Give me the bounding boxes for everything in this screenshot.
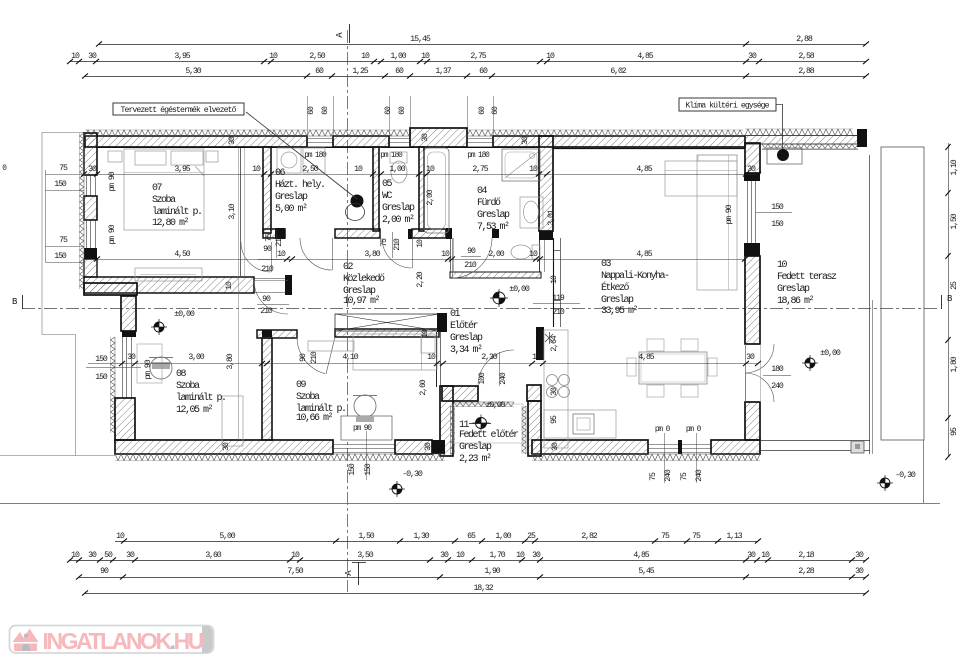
wardrobe 08	[222, 396, 243, 446]
bed room07	[108, 151, 122, 162]
svg-text:Szoba: Szoba	[152, 194, 176, 206]
top wall window head dims 60	[307, 96, 309, 136]
svg-text:30: 30	[228, 136, 237, 145]
attic ladder X-box	[335, 314, 439, 331]
svg-text:240: 240	[499, 372, 508, 385]
svg-text:Közlekedő: Közlekedő	[343, 273, 385, 285]
svg-text:pm 90: pm 90	[144, 359, 153, 379]
svg-text:60: 60	[491, 106, 500, 115]
svg-text:2,30: 2,30	[481, 353, 497, 362]
appliance 06 sink	[303, 148, 325, 173]
dim chain bottom row2	[70, 560, 866, 562]
wall 06 bottom h2a	[263, 229, 285, 238]
svg-text:Greslap: Greslap	[275, 191, 308, 203]
bed 09	[353, 334, 437, 370]
svg-text:Szoba: Szoba	[296, 391, 320, 403]
svg-text:30: 30	[126, 551, 135, 560]
svg-text:04: 04	[477, 186, 488, 197]
svg-text:90: 90	[467, 247, 476, 256]
svg-text:150: 150	[771, 203, 784, 212]
svg-text:10: 10	[550, 275, 559, 284]
dining table	[639, 352, 707, 384]
svg-text:4,10: 4,10	[342, 353, 358, 362]
wall 09 top h4b	[335, 329, 439, 337]
svg-text:4,85: 4,85	[637, 52, 653, 61]
svg-text:3,34 m²: 3,34 m²	[450, 345, 482, 356]
svg-text:Fedett előtér: Fedett előtér	[459, 429, 519, 441]
svg-text:6,02: 6,02	[610, 67, 626, 76]
svg-text:210: 210	[260, 307, 273, 316]
svg-text:50: 50	[104, 551, 113, 560]
axis A vertical dash-dot	[347, 30, 349, 592]
svg-text:10,66 m²: 10,66 m²	[296, 413, 333, 424]
svg-text:pm 90: pm 90	[108, 224, 117, 244]
svg-text:2,64: 2,64	[550, 335, 559, 351]
svg-text:Szoba: Szoba	[176, 380, 200, 392]
svg-text:1,00: 1,00	[390, 52, 406, 61]
wall 04|03	[539, 136, 553, 231]
wall bottom seg4	[711, 440, 760, 454]
dims under pm0 #2	[696, 433, 698, 483]
svg-text:2,18: 2,18	[798, 551, 814, 560]
svg-text:2,75: 2,75	[472, 165, 488, 174]
svg-text:2,00 m²: 2,00 m²	[382, 215, 414, 226]
svg-text:5,30: 5,30	[185, 67, 201, 76]
svg-text:Fürdő: Fürdő	[477, 197, 501, 209]
dresser room07	[135, 268, 202, 281]
svg-text:30: 30	[532, 551, 541, 560]
svg-text:1,37: 1,37	[435, 67, 451, 76]
window bottom pm0 #1	[648, 444, 678, 446]
svg-text:pm 180: pm 180	[467, 152, 490, 160]
svg-text:150: 150	[771, 220, 784, 229]
wall porch west	[440, 386, 453, 456]
label box Tervezett egestermek elvezeto	[113, 103, 244, 115]
svg-text:18,32: 18,32	[473, 584, 493, 593]
svg-text:3,60: 3,60	[205, 551, 221, 560]
wall living east block	[744, 243, 760, 256]
svg-text:60: 60	[384, 106, 393, 115]
svg-text:210: 210	[310, 351, 319, 364]
svg-text:-0,30: -0,30	[895, 470, 916, 480]
svg-text:90: 90	[299, 353, 308, 362]
svg-text:150: 150	[95, 355, 108, 364]
door 05 arc	[382, 238, 412, 268]
svg-text:75: 75	[59, 164, 68, 173]
svg-text:10: 10	[421, 329, 430, 338]
klima unit dot	[777, 149, 789, 161]
svg-text:B: B	[947, 294, 953, 304]
wall left jog corner	[84, 283, 137, 295]
svg-text:2,50: 2,50	[309, 52, 325, 61]
door 02|03 opening	[553, 250, 560, 252]
svg-text:65: 65	[467, 532, 476, 541]
svg-text:30: 30	[521, 136, 530, 145]
svg-text:10: 10	[421, 52, 430, 61]
wall top exterior seg2	[333, 136, 389, 147]
svg-text:1,50: 1,50	[358, 532, 374, 541]
appliance 06 washer	[277, 148, 301, 173]
dim chain interior row2	[97, 259, 745, 261]
terrace roof band upper	[745, 136, 858, 145]
svg-text:30: 30	[88, 52, 97, 61]
svg-text:1,25: 1,25	[352, 67, 368, 76]
svg-text:Greslap: Greslap	[601, 294, 634, 306]
door 07 arc	[241, 242, 271, 272]
svg-text:30: 30	[855, 567, 864, 576]
wall bottom seg3	[532, 440, 648, 454]
wall top exterior pillar	[410, 128, 467, 147]
svg-text:10,97 m²: 10,97 m²	[343, 296, 380, 307]
svg-text:06: 06	[275, 168, 286, 179]
svg-text:10: 10	[441, 250, 450, 259]
svg-text:210: 210	[552, 308, 565, 317]
svg-text:30: 30	[748, 52, 757, 61]
svg-text:4,85: 4,85	[636, 250, 652, 259]
svg-text:3,95: 3,95	[174, 165, 190, 174]
door 01 entry arc	[478, 350, 514, 386]
svg-text:08: 08	[176, 369, 187, 380]
door living double arc2	[745, 373, 774, 402]
svg-text:150: 150	[95, 373, 108, 382]
svg-text:10: 10	[456, 551, 465, 560]
svg-text:laminált p.: laminált p.	[176, 392, 226, 404]
svg-text:25: 25	[950, 281, 959, 290]
svg-text:10: 10	[416, 239, 425, 248]
svg-text:Greslap: Greslap	[382, 202, 415, 214]
svg-text:75: 75	[380, 238, 389, 247]
svg-text:75: 75	[680, 472, 689, 481]
svg-text:2,88: 2,88	[798, 67, 814, 76]
terrace corner marker	[851, 441, 864, 453]
kitchen counter west	[544, 330, 568, 448]
svg-text:10: 10	[354, 165, 363, 174]
svg-text:4,85: 4,85	[638, 353, 654, 362]
desk 08 area	[137, 344, 162, 383]
svg-text:Greslap: Greslap	[777, 283, 810, 295]
terrace roof zigzag top	[745, 129, 853, 136]
svg-text:pm 0: pm 0	[655, 426, 671, 434]
dim chain bottom row4 18.32	[85, 593, 866, 595]
svg-text:1,13: 1,13	[726, 532, 742, 541]
wc 05 toilet	[391, 161, 407, 183]
svg-text:100: 100	[478, 372, 487, 385]
svg-text:12,05 m²: 12,05 m²	[176, 405, 213, 416]
svg-text:5,45: 5,45	[638, 567, 654, 576]
wall bath door jamb	[492, 229, 499, 238]
wall 06|05	[373, 147, 379, 231]
svg-text:2,28: 2,28	[798, 567, 814, 576]
svg-text:60: 60	[395, 67, 404, 76]
terrace east edge	[869, 155, 871, 454]
svg-text:90: 90	[263, 245, 272, 254]
wall porch north	[442, 386, 478, 401]
window left pm90 #1	[86, 175, 88, 196]
svg-text:10: 10	[291, 551, 300, 560]
svg-text:4,85: 4,85	[636, 165, 652, 174]
svg-text:210: 210	[393, 238, 402, 251]
dim chain bottom row1	[115, 541, 758, 543]
porch inner zigzag	[454, 402, 514, 407]
wall left pillar	[84, 196, 97, 220]
svg-text:2,50: 2,50	[302, 165, 318, 174]
svg-text:Greslap: Greslap	[450, 332, 483, 344]
svg-text:1,70: 1,70	[489, 551, 505, 560]
svg-text:2,82: 2,82	[581, 532, 597, 541]
svg-text:03: 03	[601, 259, 612, 270]
svg-text:10: 10	[516, 551, 525, 560]
wall 08|09 top h4a	[257, 330, 297, 338]
window bottom pm0 #2	[682, 444, 711, 446]
insulation zigzag top	[85, 130, 409, 136]
svg-text:2,58: 2,58	[798, 52, 814, 61]
svg-text:1,10: 1,10	[950, 159, 959, 175]
window top pm180 #1	[307, 138, 333, 140]
svg-text:±0,00: ±0,00	[174, 309, 195, 319]
stove 09	[354, 395, 376, 417]
svg-text:±0,00: ±0,00	[820, 348, 841, 358]
window top pm180 #3	[467, 138, 493, 140]
svg-text:60: 60	[307, 106, 316, 115]
svg-text:7,50: 7,50	[287, 567, 303, 576]
svg-text:30: 30	[746, 353, 755, 362]
svg-text:30: 30	[855, 551, 864, 560]
dims under pm0 #1	[664, 433, 666, 483]
wall bottom seg1	[115, 440, 333, 454]
svg-text:01: 01	[450, 309, 461, 320]
svg-text:30: 30	[88, 551, 97, 560]
wall top exterior seg4	[493, 136, 745, 147]
svg-text:10: 10	[546, 52, 555, 61]
wardrobe room07 east	[240, 148, 242, 276]
dim chain interior row3	[88, 363, 758, 365]
svg-text:2,00: 2,00	[488, 250, 504, 259]
right garden strip	[881, 147, 924, 440]
door living double arc1	[745, 344, 774, 373]
wall living east seg1	[745, 143, 760, 173]
svg-text:30: 30	[88, 165, 97, 174]
svg-text:150: 150	[54, 180, 67, 189]
svg-text:07: 07	[152, 183, 163, 194]
svg-text:4,85: 4,85	[633, 551, 649, 560]
terrace bottom edge	[760, 440, 870, 442]
svg-text:18,86 m²: 18,86 m²	[777, 296, 814, 307]
svg-text:3,95: 3,95	[174, 52, 190, 61]
svg-text:10: 10	[252, 165, 261, 174]
svg-text:±0,00: ±0,00	[486, 401, 506, 410]
dim chain interior row1	[84, 174, 758, 176]
wall kitchen pier	[536, 327, 544, 360]
terrace roof block	[857, 129, 867, 147]
svg-text:150: 150	[348, 463, 357, 476]
svg-text:Klíma kültéri egysége: Klíma kültéri egysége	[685, 101, 769, 111]
stove 08	[150, 357, 172, 379]
svg-text:3,00: 3,00	[188, 353, 204, 362]
bed 09 shelf	[308, 341, 354, 351]
svg-text:7,53 m²: 7,53 m²	[477, 222, 509, 233]
wall 02|03 jamb	[553, 238, 555, 327]
svg-text:60: 60	[315, 67, 324, 76]
bath nook side	[450, 238, 452, 272]
svg-text:3,10: 3,10	[228, 203, 237, 219]
wall bottom seg2	[395, 440, 432, 454]
dim chain right margin	[948, 143, 950, 457]
terrace ceiling line	[762, 149, 858, 151]
svg-text:3,80: 3,80	[364, 250, 380, 259]
svg-text:Tervezett égéstermék elvezető: Tervezett égéstermék elvezető	[121, 105, 237, 115]
svg-text:10: 10	[269, 52, 278, 61]
axis B horizontal dash-dot	[22, 308, 940, 310]
bath sink	[520, 197, 543, 228]
svg-text:A: A	[344, 570, 354, 576]
wall kitchen west	[528, 401, 541, 456]
svg-text:30: 30	[424, 442, 433, 451]
sofa living	[665, 161, 737, 196]
svg-text:Házt. hely.: Házt. hely.	[275, 179, 325, 191]
svg-text:60: 60	[398, 106, 407, 115]
svg-text:4,50: 4,50	[174, 250, 190, 259]
svg-text:pm 90: pm 90	[353, 425, 372, 433]
svg-text:25: 25	[527, 532, 536, 541]
label box Klima kulteri egysege	[679, 98, 776, 111]
door 09 arc	[297, 337, 325, 374]
svg-text:10: 10	[532, 353, 541, 362]
bath tub	[424, 148, 449, 233]
section star mark	[545, 334, 553, 342]
svg-text:30: 30	[551, 442, 560, 451]
svg-text:2,75: 2,75	[470, 52, 486, 61]
site boundary line	[0, 503, 940, 505]
svg-text:10: 10	[71, 52, 80, 61]
svg-text:A: A	[335, 32, 345, 38]
svg-text:2,60: 2,60	[419, 379, 428, 395]
svg-text:30: 30	[421, 133, 430, 142]
svg-text:15,45: 15,45	[410, 34, 431, 44]
svg-text:pm 180: pm 180	[304, 152, 327, 160]
svg-text:10: 10	[71, 551, 80, 560]
svg-text:210: 210	[261, 265, 274, 274]
svg-text:75: 75	[692, 532, 701, 541]
wall living east seg3	[745, 402, 760, 440]
wall 07|06	[263, 147, 271, 233]
svg-text:60: 60	[478, 106, 487, 115]
svg-text:30: 30	[222, 442, 231, 451]
wall left exterior seg1	[84, 133, 97, 175]
wall top exterior seg1	[85, 136, 307, 147]
dim chain top row2	[70, 61, 866, 63]
wall 05|04	[419, 147, 424, 231]
svg-text:pm 0: pm 0	[686, 426, 702, 434]
svg-text:WC: WC	[382, 191, 393, 202]
svg-text:60: 60	[479, 67, 488, 76]
svg-text:Előtér: Előtér	[450, 320, 479, 332]
window left pm90 #2	[86, 220, 88, 248]
svg-text:1,80: 1,80	[950, 356, 959, 372]
dims under 09 window	[366, 431, 368, 480]
wall bath bottom h2c	[412, 229, 446, 238]
svg-text:3,80: 3,80	[226, 353, 235, 369]
svg-text:5,00: 5,00	[219, 532, 235, 541]
svg-text:240: 240	[664, 469, 673, 482]
svg-text:33,95 m²: 33,95 m²	[601, 306, 638, 317]
door 08 arc	[254, 280, 288, 314]
eaves outline	[0, 133, 115, 456]
svg-text:05: 05	[382, 179, 393, 190]
wall 01|09 pier	[437, 313, 447, 332]
bath nook bottom	[450, 272, 541, 278]
svg-text:95: 95	[950, 427, 959, 436]
svg-text:pm 90: pm 90	[725, 204, 734, 224]
svg-text:90: 90	[262, 295, 271, 304]
svg-text:119: 119	[552, 294, 565, 303]
svg-text:210: 210	[464, 261, 477, 270]
svg-text:09: 09	[296, 380, 307, 391]
svg-text:1,90: 1,90	[484, 567, 500, 576]
dim chain top row1 15.45	[99, 44, 866, 46]
wall left lower seg	[115, 398, 135, 440]
wall left block	[84, 248, 97, 259]
svg-text:150: 150	[364, 463, 373, 476]
bath toilet	[511, 245, 531, 259]
svg-text:10: 10	[777, 260, 788, 271]
vert dim line x238	[238, 148, 240, 440]
dining chairs	[647, 339, 664, 351]
svg-text:95: 95	[550, 415, 559, 424]
svg-text:10: 10	[761, 551, 770, 560]
wall living east seg2	[745, 256, 760, 344]
inner face line top wall	[97, 147, 263, 149]
svg-text:1,00: 1,00	[495, 532, 511, 541]
svg-text:75: 75	[59, 236, 68, 245]
insulation zigzag left	[80, 133, 85, 289]
svg-text:30: 30	[747, 551, 756, 560]
svg-text:10: 10	[225, 281, 234, 290]
svg-text:INGATLANOK.HU: INGATLANOK.HU	[43, 628, 204, 654]
svg-text:30: 30	[440, 551, 449, 560]
svg-text:60: 60	[321, 106, 330, 115]
svg-text:Fedett terasz: Fedett terasz	[777, 271, 837, 283]
svg-text:2,23 m²: 2,23 m²	[459, 454, 491, 465]
wall left mid seg	[121, 296, 136, 331]
svg-text:1,00: 1,00	[389, 165, 405, 174]
svg-text:Greslap: Greslap	[477, 209, 510, 221]
svg-text:-0,30: -0,30	[402, 469, 423, 479]
svg-text:1,50: 1,50	[950, 213, 959, 229]
wall 01|09 lower	[436, 332, 438, 387]
svg-text:2,88: 2,88	[796, 34, 813, 44]
svg-text:B: B	[12, 297, 18, 307]
svg-text:12,80 m²: 12,80 m²	[152, 218, 189, 229]
svg-text:10: 10	[427, 353, 436, 362]
svg-text:30: 30	[747, 165, 756, 174]
door 06 arc	[300, 238, 332, 270]
svg-text:30: 30	[550, 387, 559, 396]
svg-text:1,30: 1,30	[413, 532, 429, 541]
insulation zigzag bottom	[115, 454, 445, 461]
svg-text:10: 10	[426, 165, 435, 174]
kitchen counter south	[544, 410, 616, 438]
wall room07 bottom	[84, 277, 254, 293]
wall 05 area h2b	[335, 229, 380, 238]
svg-text:Nappali-Konyha-: Nappali-Konyha-	[601, 270, 669, 282]
svg-text:3,01: 3,01	[547, 209, 556, 225]
dim chain bottom row3	[79, 577, 866, 579]
svg-text:75: 75	[265, 233, 274, 242]
flue dot	[351, 195, 364, 208]
terrace inner zigzag	[762, 144, 858, 149]
svg-text:10: 10	[529, 165, 538, 174]
svg-text:10: 10	[361, 52, 370, 61]
